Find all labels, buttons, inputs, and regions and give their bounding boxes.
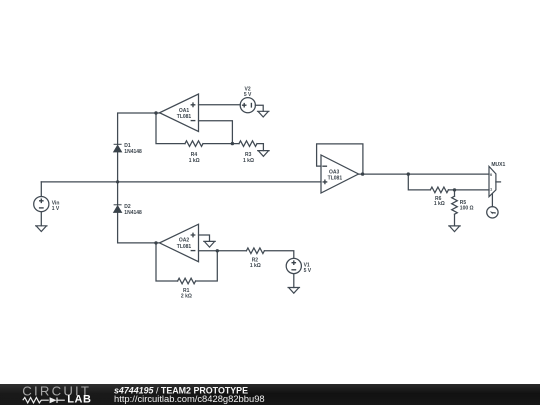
svg-text:2 kΩ: 2 kΩ — [181, 294, 192, 300]
svg-text:MUX1: MUX1 — [491, 162, 505, 168]
svg-text:TL081: TL081 — [177, 244, 192, 250]
svg-text:1 V: 1 V — [52, 206, 60, 212]
svg-text:LAB: LAB — [67, 394, 91, 405]
svg-text:1 kΩ: 1 kΩ — [250, 263, 261, 269]
svg-text:1N4148: 1N4148 — [124, 210, 142, 216]
svg-text:TL081: TL081 — [177, 114, 192, 120]
svg-text:1 kΩ: 1 kΩ — [189, 158, 200, 164]
svg-text:100 Ω: 100 Ω — [460, 205, 474, 211]
svg-text:1N4148: 1N4148 — [124, 149, 142, 155]
svg-text:5 V: 5 V — [304, 268, 312, 274]
svg-text:5 V: 5 V — [244, 92, 252, 98]
svg-text:TL081: TL081 — [328, 175, 343, 181]
svg-text:1 kΩ: 1 kΩ — [243, 158, 254, 164]
svg-text:1 kΩ: 1 kΩ — [434, 201, 445, 207]
svg-text:http://circuitlab.com/c8428g82: http://circuitlab.com/c8428g82bbu98 — [114, 393, 265, 404]
svg-text:OA2: OA2 — [179, 237, 190, 243]
